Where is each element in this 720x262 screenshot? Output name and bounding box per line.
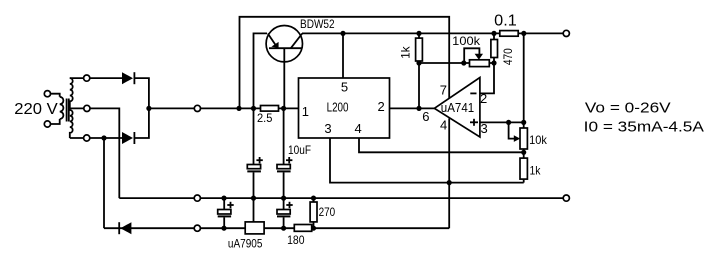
wire op-amp pin3 row (480, 121, 524, 123)
wire secondary mid to corner down (90, 108, 119, 198)
svg-text:0.1: 0.1 (494, 13, 517, 30)
resistor 1k lower (520, 158, 541, 183)
wire L200 pin5 (342, 33, 344, 78)
junction (521, 150, 526, 155)
svg-text:4: 4 (440, 117, 447, 132)
svg-text:270: 270 (319, 205, 336, 219)
svg-text:2: 2 (378, 99, 385, 114)
capacitor C2 10uF (277, 108, 311, 198)
resistor 0.1 (494, 13, 518, 37)
junction (146, 106, 151, 111)
svg-text:5: 5 (341, 80, 348, 95)
junction (281, 196, 286, 201)
junction (521, 120, 526, 125)
resistor 2.5 (257, 106, 279, 125)
svg-text:1k: 1k (399, 45, 413, 58)
wire rectified rail to L200 pin1 (149, 107, 299, 109)
junction (281, 226, 286, 231)
wire D1 cathode to junction column (134, 78, 149, 138)
IC U3 uA7905 (228, 198, 264, 250)
wire output rail down to 10k (523, 33, 525, 128)
terminal on rail (194, 105, 200, 111)
junction (491, 31, 496, 36)
wire emitter column (254, 33, 268, 108)
svg-text:220 V: 220 V (14, 101, 58, 118)
junction (461, 60, 466, 65)
diode D2 (122, 132, 134, 144)
diode D3 (119, 222, 131, 234)
wire top feed line (240, 17, 450, 109)
resistor 470 (491, 33, 515, 65)
svg-text:7: 7 (440, 83, 447, 98)
svg-text:2: 2 (480, 91, 487, 106)
potentiometer 100k (452, 34, 489, 67)
resistor 180 (287, 225, 312, 248)
svg-text:10uF: 10uF (288, 143, 311, 157)
junction (491, 60, 496, 65)
svg-text:470: 470 (501, 48, 515, 65)
svg-text:2.5: 2.5 (257, 111, 273, 125)
junction (521, 31, 526, 36)
wire 10k bottom (523, 149, 525, 158)
wire L200 pin2 to op-amp (390, 107, 435, 109)
svg-text:Vo = 0-26V: Vo = 0-26V (585, 100, 671, 117)
wire row B negative supply rail (104, 227, 449, 229)
capacitor C1 (247, 108, 262, 198)
svg-text:uA741: uA741 (441, 100, 474, 115)
svg-text:100k: 100k (452, 34, 481, 48)
wire L200 pin3 down and right (330, 138, 524, 183)
wire row A negative output rail (119, 197, 563, 199)
transistor Q1 BDW52 (266, 17, 335, 108)
wire secondary top to D1 (90, 77, 122, 79)
wire node to op-amp inverting input (480, 63, 494, 93)
diode D1 (122, 72, 134, 84)
junction (221, 226, 226, 231)
terminal on row B (194, 225, 200, 231)
junction (447, 180, 452, 185)
terminal on row A (194, 195, 200, 201)
svg-text:I0 = 35mA-4.5A: I0 = 35mA-4.5A (584, 118, 704, 135)
IC U1 L200 (299, 78, 390, 138)
wire neg branch down (103, 138, 105, 228)
capacitor C3 (218, 198, 234, 228)
wire L200 pin4 down and right (359, 138, 524, 152)
wire op-amp pin4 column (448, 119, 450, 229)
junction (311, 196, 316, 201)
junction (236, 106, 241, 111)
wire node 63 row (419, 62, 494, 64)
junction (416, 31, 421, 36)
op-amp U2 uA741 (422, 78, 487, 138)
resistor 1k upper (399, 33, 423, 63)
svg-text:6: 6 (422, 109, 429, 124)
svg-text:1k: 1k (530, 164, 542, 178)
junction (221, 196, 226, 201)
junction (281, 106, 286, 111)
junction (340, 31, 345, 36)
output terminal plus (563, 30, 569, 36)
svg-text:4: 4 (355, 121, 362, 136)
svg-text:uA7905: uA7905 (228, 236, 263, 250)
wire secondary bottom to D2 (90, 137, 122, 139)
junction (506, 120, 511, 125)
potentiometer 10k (509, 122, 548, 149)
svg-text:180: 180 (287, 233, 305, 247)
wire node column to pin6 (418, 63, 420, 108)
svg-text:1: 1 (302, 104, 309, 119)
junction (311, 226, 316, 231)
junction (251, 106, 256, 111)
svg-text:L200: L200 (327, 100, 349, 115)
output terminal minus (563, 195, 569, 201)
svg-text:10k: 10k (529, 133, 548, 147)
junction (416, 60, 421, 65)
junction (251, 196, 256, 201)
junction (416, 106, 421, 111)
junction (101, 135, 106, 140)
svg-text:BDW52: BDW52 (300, 17, 335, 31)
resistor 270 (310, 198, 335, 228)
capacitor C4 (277, 198, 293, 228)
svg-text:3: 3 (324, 121, 331, 136)
wire collector rail to output terminal (302, 32, 563, 34)
transformer T1 (44, 75, 90, 141)
